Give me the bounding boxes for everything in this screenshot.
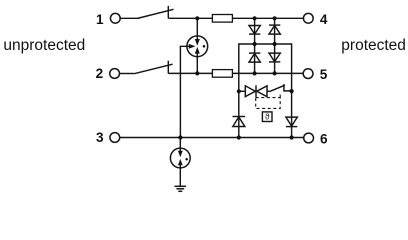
svg-text:4: 4	[320, 12, 328, 27]
gas discharge tube F2 (2-electrode) circle	[170, 148, 190, 168]
F1 bottom electrode wire	[196, 53, 198, 73]
svg-text:5: 5	[320, 67, 328, 82]
junction row3 right	[290, 135, 294, 139]
dashed link to disconnect switch	[279, 93, 281, 97]
terminal 6 circle	[304, 133, 314, 143]
junction TVS branch right	[290, 89, 294, 93]
wire row 3 (term3 to term6)	[120, 137, 304, 139]
wire TVS to disconnect switch	[267, 90, 270, 92]
junction row2 / F1	[195, 71, 199, 75]
svg-text:6: 6	[320, 132, 328, 147]
diode branch left vertical	[254, 18, 256, 73]
junction row3 left	[237, 135, 241, 139]
F1 bottom electrode arrow	[195, 47, 200, 54]
junction row3 / F1 ground	[178, 135, 182, 139]
diode branch right vertical	[274, 18, 276, 73]
disconnect switch blade (TVS branch)	[270, 85, 285, 91]
F2 gas indicator dot	[185, 158, 188, 161]
TVS suppressor center bar	[255, 85, 257, 97]
wire term1 to switch	[120, 17, 137, 19]
diode D5 (left lower, cathode up)	[233, 116, 246, 118]
disconnect switch contact	[284, 84, 292, 91]
wire switch to resistor R1	[168, 17, 212, 19]
ground symbol	[175, 185, 187, 187]
mid rail connecting diode midpoints	[239, 44, 292, 91]
left vertical to row3	[238, 91, 240, 137]
terminal 1 circle	[110, 13, 120, 23]
junction TVS branch left	[237, 89, 241, 93]
junction dots row1 diodes	[253, 16, 257, 20]
gas discharge tube F1 (3-electrode) circle	[187, 36, 208, 57]
F2 top electrode arrow	[178, 151, 183, 157]
right vertical to row3	[291, 91, 293, 137]
junction row1 / F1	[195, 16, 199, 20]
diode D1 (top left, cathode down)	[249, 26, 260, 35]
terminal 2 circle	[110, 69, 120, 79]
terminal 5 circle	[303, 69, 313, 79]
F2 top electrode wire	[179, 138, 181, 152]
svg-text:1: 1	[96, 12, 104, 27]
svg-text:unprotected: unprotected	[3, 37, 85, 54]
junction dots mid rail	[253, 42, 257, 46]
diode D6 (right lower, cathode down)	[286, 117, 297, 126]
F1 ground electrode wire to row 3	[180, 46, 189, 137]
TVS branch left wire	[239, 90, 246, 92]
F1 top electrode wire	[196, 18, 198, 39]
terminal 4 circle	[303, 13, 313, 23]
F1 gas indicator dot	[203, 45, 206, 48]
wire R2 to terminal 5	[232, 72, 303, 74]
F1 left (ground) electrode arrow	[189, 44, 196, 49]
junction dots row2 diodes	[253, 71, 257, 75]
resistor R2	[212, 70, 232, 78]
terminal 3 circle	[110, 133, 120, 143]
F2 bottom electrode arrow	[178, 159, 183, 165]
F1 top electrode arrow	[195, 39, 200, 46]
diode D2 (top right, cathode up)	[269, 24, 280, 26]
F2 bottom electrode wire to ground	[179, 165, 181, 186]
svg-text:ϑ: ϑ	[265, 112, 270, 122]
switch (thermal disconnect) row 2	[134, 64, 172, 74]
diode D3 (bottom left, cathode up)	[249, 52, 260, 54]
wire term2 to switch	[120, 73, 135, 75]
thermal sensor box	[262, 112, 272, 122]
diode D4 (bottom right, cathode down)	[269, 53, 280, 62]
svg-text:protected: protected	[341, 37, 406, 54]
resistor R1	[212, 15, 232, 23]
TVS suppressor left triangle	[245, 86, 255, 97]
TVS suppressor right triangle	[257, 86, 267, 97]
svg-text:3: 3	[96, 130, 104, 145]
switch (thermal disconnect) row 1	[137, 9, 174, 18]
wire switch to resistor R2	[168, 72, 212, 74]
wire R1 to terminal 4	[232, 17, 303, 19]
svg-text:2: 2	[96, 66, 104, 81]
dashed monitoring box	[256, 98, 281, 109]
